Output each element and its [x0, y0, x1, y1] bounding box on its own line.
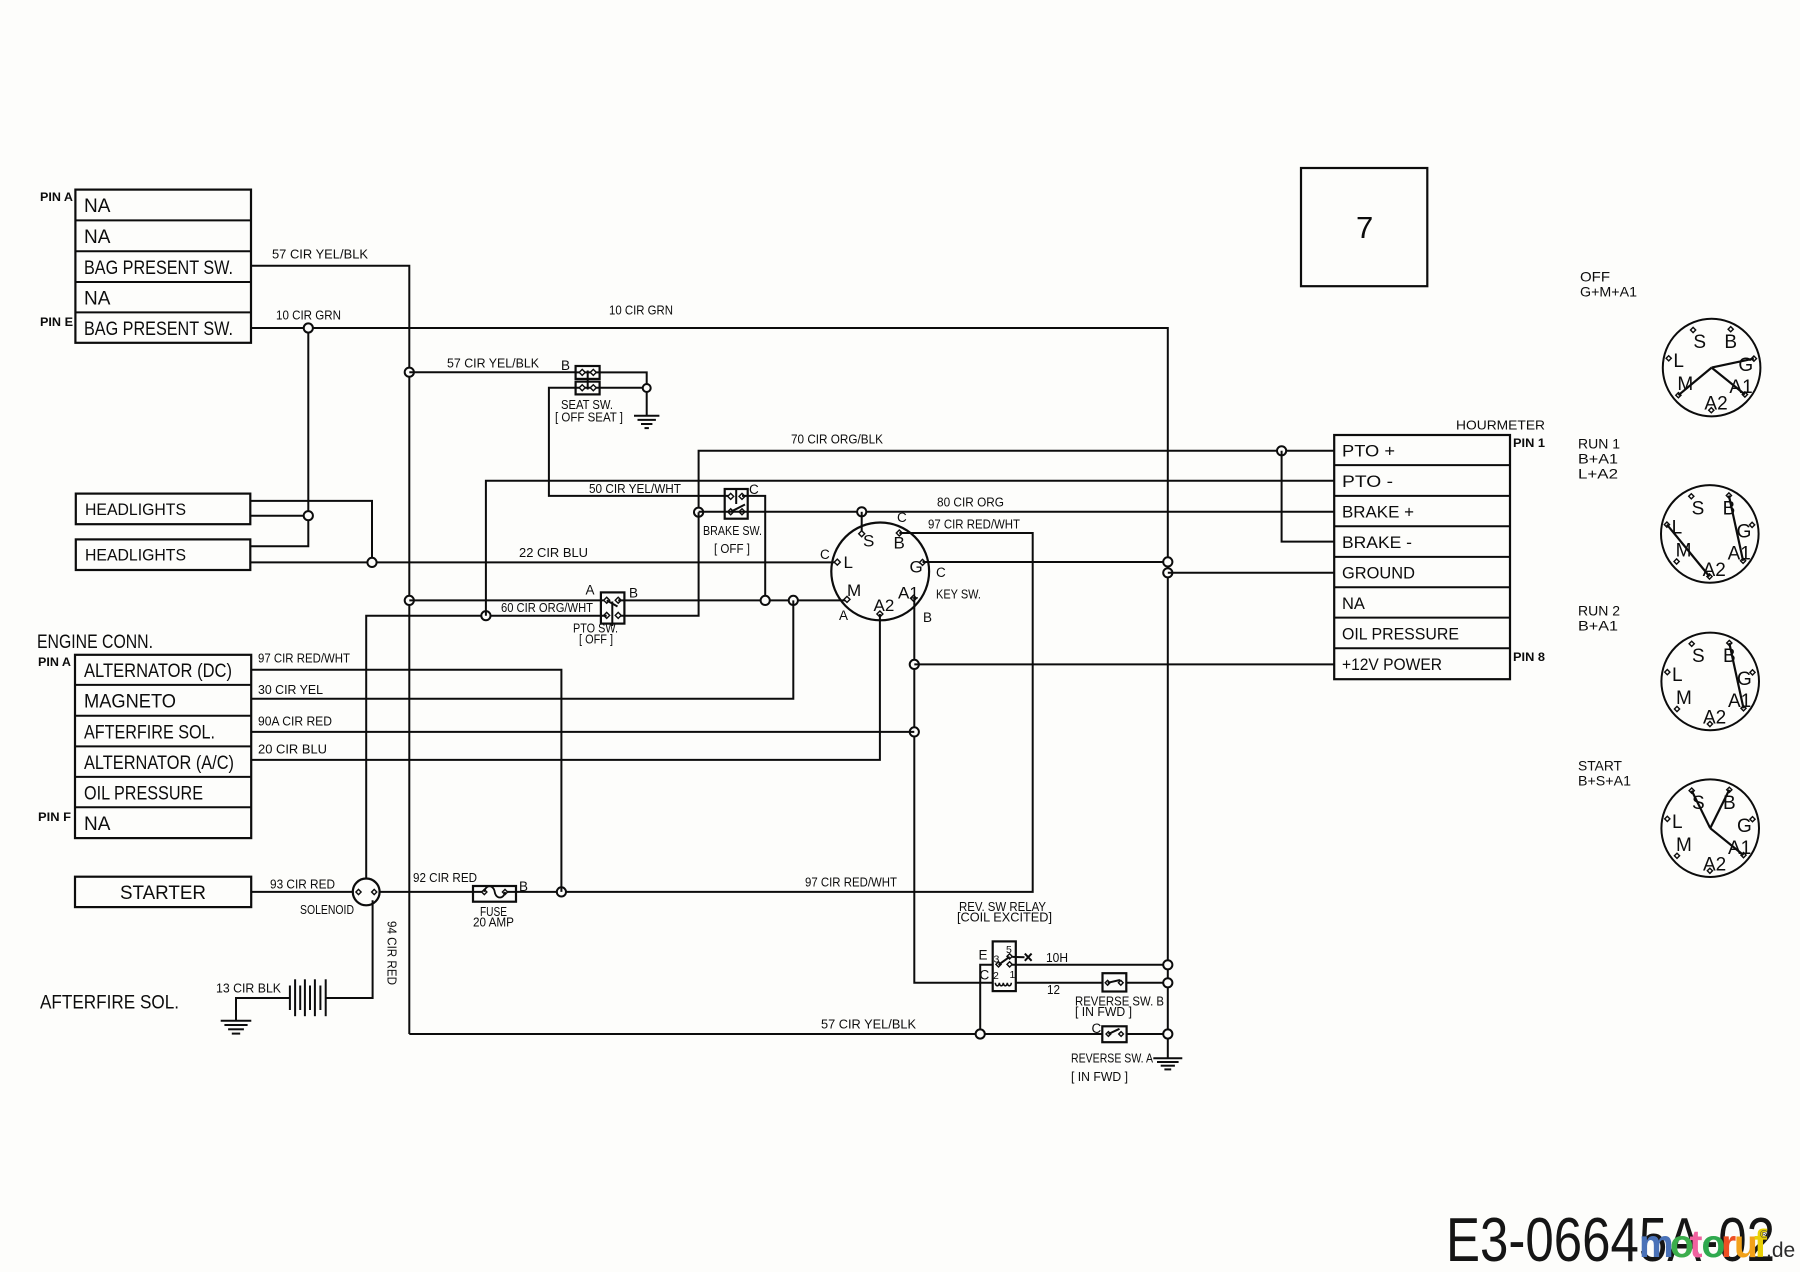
svg-text:C: C	[936, 565, 946, 580]
svg-text:57 CIR YEL/BLK: 57 CIR YEL/BLK	[821, 1017, 916, 1032]
seat switch SW2	[576, 366, 600, 394]
svg-text:A1: A1	[898, 584, 919, 603]
svg-text:70 CIR ORG/BLK: 70 CIR ORG/BLK	[791, 432, 883, 447]
ground (seat switch)	[634, 392, 659, 428]
key switch terminal B	[896, 530, 902, 536]
wire 60 CIR ORG/WHT solenoid to PTO sw	[366, 616, 607, 879]
reference box 7	[1301, 168, 1427, 286]
svg-text:M: M	[1677, 374, 1693, 395]
wire 94 CIR RED solenoid to battery	[326, 900, 373, 998]
svg-text:B: B	[519, 879, 528, 894]
junction brake C node	[694, 508, 703, 517]
svg-text:97 CIR RED/WHT: 97 CIR RED/WHT	[258, 650, 350, 665]
starter box	[75, 877, 251, 907]
wire A1 vertical to relay coil	[914, 598, 993, 983]
svg-text:10 CIR GRN: 10 CIR GRN	[609, 303, 673, 318]
svg-text:S: S	[1692, 793, 1705, 814]
headlights box 1	[76, 494, 251, 525]
wire 70 CIR ORG/BLK brake C to hourmeter PTO+	[699, 451, 1335, 512]
svg-text:B: B	[1724, 332, 1737, 353]
key switch terminal L	[834, 559, 840, 565]
wire 50 CIR YEL/WHT seat to brake sw	[549, 388, 731, 496]
svg-text:L+A2: L+A2	[1578, 466, 1618, 482]
svg-text:PIN E: PIN E	[40, 315, 73, 329]
svg-text:20 CIR BLU: 20 CIR BLU	[258, 742, 327, 757]
svg-text:BAG PRESENT SW.: BAG PRESENT SW.	[84, 319, 233, 340]
junction M net brake branch	[761, 596, 770, 605]
engine connector J2	[75, 655, 251, 838]
wire reverse sw B to bus	[1126, 982, 1168, 984]
svg-text:REVERSE SW. A: REVERSE SW. A	[1071, 1051, 1153, 1066]
wire 93 CIR RED starter to solenoid	[251, 891, 353, 893]
key switch terminal G	[920, 559, 926, 565]
svg-text:30 CIR YEL: 30 CIR YEL	[258, 682, 323, 697]
svg-text:B: B	[894, 534, 905, 553]
junction 60 CIR ORG/WHT	[481, 611, 490, 620]
svg-text:12: 12	[1047, 982, 1060, 997]
PTO switch SW1	[601, 592, 625, 626]
svg-text:C: C	[749, 482, 759, 497]
junction 22 CIR BLU	[367, 558, 376, 567]
svg-text:7: 7	[1356, 210, 1373, 245]
svg-text:.de: .de	[1766, 1239, 1795, 1262]
svg-text:+12V POWER: +12V POWER	[1342, 656, 1442, 674]
wire G terminal to ground bus	[923, 561, 1168, 563]
wire GROUND row to hourmeter	[1168, 572, 1334, 574]
svg-text:B+S+A1: B+S+A1	[1578, 773, 1631, 789]
svg-text:BAG PRESENT SW.: BAG PRESENT SW.	[84, 258, 233, 279]
svg-text:m: m	[1639, 1223, 1674, 1266]
svg-text:A2: A2	[874, 596, 895, 615]
svg-text:[ IN FWD ]: [ IN FWD ]	[1075, 1004, 1132, 1019]
svg-text:C: C	[1092, 1021, 1102, 1036]
svg-text:A: A	[586, 583, 595, 598]
junction 97 net at alternator DC feed	[557, 887, 566, 896]
wire 97 CIR RED/WHT alternator DC	[251, 670, 561, 892]
svg-text:5: 5	[1006, 944, 1012, 956]
svg-text:HEADLIGHTS: HEADLIGHTS	[85, 547, 186, 565]
junction relay E at 57 net	[976, 1029, 985, 1038]
watermark motoruf.de	[1639, 1223, 1795, 1266]
svg-text:G+M+A1: G+M+A1	[1580, 284, 1637, 300]
key switch terminal A1	[911, 595, 917, 601]
svg-text:L: L	[1673, 351, 1684, 372]
wire S terminal drop	[861, 512, 863, 534]
svg-text:STARTER: STARTER	[120, 883, 206, 904]
svg-text:PIN 1: PIN 1	[1513, 436, 1545, 450]
svg-text:10 CIR GRN: 10 CIR GRN	[276, 308, 341, 323]
svg-text:A1: A1	[1728, 691, 1751, 712]
svg-text:GROUND: GROUND	[1342, 565, 1415, 583]
junction 12 at bus	[1163, 978, 1172, 987]
svg-text:13 CIR BLK: 13 CIR BLK	[216, 981, 281, 996]
svg-text:NA: NA	[84, 196, 111, 217]
svg-text:NA: NA	[84, 288, 111, 309]
svg-text:3: 3	[994, 954, 1000, 966]
svg-text:2: 2	[993, 970, 999, 982]
key position diagram OFF	[1663, 319, 1761, 417]
svg-text:90A CIR RED: 90A CIR RED	[258, 713, 332, 728]
svg-text:OFF: OFF	[1580, 269, 1610, 285]
solenoid	[353, 879, 380, 906]
junction 57 net at PTO A branch	[405, 596, 414, 605]
wire solenoid to fuse 92 CIR RED	[380, 891, 485, 893]
svg-text:M: M	[1676, 688, 1692, 709]
wire seat switch to ground	[600, 372, 647, 384]
svg-text:22 CIR BLU: 22 CIR BLU	[519, 545, 588, 560]
svg-text:L: L	[1672, 812, 1683, 833]
svg-text:OIL PRESSURE: OIL PRESSURE	[84, 783, 203, 804]
wire 80 CIR ORG brake to hourmeter BRAKE+	[699, 511, 1335, 513]
junction G on bus	[1163, 557, 1172, 566]
key position diagram START	[1661, 779, 1759, 877]
node seat ground junction	[643, 384, 651, 392]
junction M net magneto branch	[789, 596, 798, 605]
svg-text:PIN A: PIN A	[40, 190, 73, 204]
svg-text:M: M	[847, 581, 861, 600]
wire hourmeter PTO- long feed	[486, 481, 1334, 616]
svg-text:A: A	[839, 608, 848, 623]
reverse switch A	[1102, 1026, 1126, 1042]
svg-text:KEY SW.: KEY SW.	[936, 587, 981, 602]
wire seat lower pin to ground node	[600, 387, 644, 389]
svg-text:S: S	[1692, 646, 1705, 667]
svg-text:B: B	[923, 610, 932, 625]
reverse switch B	[1103, 973, 1127, 991]
wire 10H relay to ground bus	[1012, 964, 1168, 966]
ground (battery)	[221, 1021, 252, 1034]
svg-text:NA: NA	[1342, 595, 1365, 613]
svg-text:60 CIR ORG/WHT: 60 CIR ORG/WHT	[501, 600, 593, 615]
svg-text:SOLENOID: SOLENOID	[300, 902, 354, 917]
svg-text:G: G	[910, 558, 923, 577]
svg-text:[ OFF ]: [ OFF ]	[579, 632, 613, 647]
svg-text:20 AMP: 20 AMP	[473, 914, 514, 929]
wire relay E to 57 net	[980, 965, 993, 1034]
wire headlight1 lower to junction	[250, 515, 308, 517]
svg-text:RUN 2: RUN 2	[1578, 603, 1620, 619]
svg-text:92 CIR RED: 92 CIR RED	[413, 870, 477, 885]
svg-text:A1: A1	[1728, 838, 1751, 859]
svg-text:ALTERNATOR (DC): ALTERNATOR (DC)	[84, 661, 232, 682]
svg-text:C: C	[897, 510, 907, 525]
svg-text:PTO +: PTO +	[1342, 443, 1395, 461]
svg-text:B: B	[561, 358, 570, 373]
key switch terminal S	[859, 531, 865, 537]
svg-text:ALTERNATOR (A/C): ALTERNATOR (A/C)	[84, 753, 234, 774]
key position diagram RUN 2	[1661, 633, 1759, 731]
junction PTO+ / BRAKE- branch	[1277, 446, 1286, 455]
svg-text:G: G	[1737, 816, 1752, 837]
svg-text:B: B	[1723, 793, 1736, 814]
svg-text:50 CIR YEL/WHT: 50 CIR YEL/WHT	[589, 481, 681, 496]
svg-text:97 CIR RED/WHT: 97 CIR RED/WHT	[805, 875, 897, 890]
wire 57 branch to seat switch	[409, 371, 575, 373]
svg-text:[COIL EXCITED]: [COIL EXCITED]	[957, 910, 1052, 925]
hourmeter connector	[1334, 435, 1510, 679]
wire BRAKE- feed	[1282, 451, 1335, 542]
wire A2 to 20 CIR BLU	[251, 614, 880, 760]
svg-text:A2: A2	[1703, 854, 1726, 875]
ground (reverse sw A)	[1153, 1039, 1182, 1069]
svg-text:G: G	[1737, 522, 1752, 543]
svg-text:C: C	[820, 547, 830, 562]
wire brake top pin down to M net	[742, 496, 765, 601]
svg-text:B+A1: B+A1	[1578, 618, 1618, 634]
wire 57 CIR YEL/BLK bottom run	[409, 1033, 1102, 1035]
junction bus bottom ground node	[1163, 1029, 1172, 1038]
key switch terminal M	[844, 596, 850, 602]
svg-text:A2: A2	[1703, 708, 1726, 729]
key switch terminal labels	[844, 532, 923, 616]
svg-text:HOURMETER: HOURMETER	[1456, 418, 1545, 433]
wire reverse sw A to ground node	[1127, 1033, 1168, 1035]
wire brake C vertical to PTO sw B	[618, 512, 698, 616]
svg-text:S: S	[1692, 499, 1705, 520]
wire headlight1 top to 22 CIR BLU junction	[250, 501, 372, 563]
svg-text:B+A1: B+A1	[1578, 451, 1618, 467]
svg-text:80 CIR ORG: 80 CIR ORG	[937, 495, 1004, 510]
svg-text:1: 1	[1010, 969, 1016, 981]
key position diagram RUN 1	[1661, 485, 1759, 583]
junction headlight node	[304, 511, 313, 520]
headlights box 2	[76, 539, 251, 570]
svg-text:93 CIR RED: 93 CIR RED	[270, 876, 335, 891]
wire 30 CIR YEL magneto to M net	[251, 600, 793, 698]
wire 97 CIR RED/WHT key B to fuse	[505, 533, 1033, 892]
svg-text:AFTERFIRE SOL.: AFTERFIRE SOL.	[40, 993, 179, 1014]
junction +12V feed	[910, 660, 919, 669]
svg-text:PIN F: PIN F	[38, 810, 71, 824]
svg-text:G: G	[1737, 669, 1752, 690]
wire M net PTO B to key switch M	[618, 599, 847, 601]
svg-text:S: S	[863, 532, 874, 551]
fuse F1 20 AMP	[473, 886, 516, 902]
svg-text:OIL PRESSURE: OIL PRESSURE	[1342, 626, 1459, 644]
svg-text:A1: A1	[1729, 377, 1752, 398]
wire 12 relay coil through reverse sw B	[1016, 982, 1103, 984]
svg-text:B: B	[1723, 646, 1736, 667]
connector J1 bag/pin block	[75, 190, 251, 343]
svg-text:START: START	[1578, 758, 1622, 774]
wire 13 CIR BLK battery to ground	[236, 998, 290, 1021]
svg-text:57 CIR YEL/BLK: 57 CIR YEL/BLK	[447, 356, 539, 371]
junction 90A CIR RED feed	[910, 727, 919, 736]
svg-text:A2: A2	[1704, 394, 1727, 415]
svg-text:M: M	[1676, 541, 1692, 562]
key switch terminal A2	[877, 611, 883, 617]
svg-text:L: L	[1672, 665, 1683, 686]
svg-text:94 CIR RED: 94 CIR RED	[385, 921, 400, 985]
wire +12V POWER to hourmeter	[914, 663, 1334, 665]
brake switch SW3	[725, 489, 748, 519]
svg-text:BRAKE SW.: BRAKE SW.	[703, 523, 762, 538]
svg-text:[ OFF SEAT ]: [ OFF SEAT ]	[555, 409, 623, 424]
svg-text:HEADLIGHTS: HEADLIGHTS	[85, 501, 186, 519]
svg-text:M: M	[1676, 835, 1692, 856]
wire 57 CIR YEL/BLK from bag present sw	[251, 266, 409, 1034]
svg-text:E: E	[979, 948, 988, 963]
wire 90A CIR RED afterfire sol	[251, 731, 914, 733]
svg-text:A1: A1	[1728, 544, 1751, 565]
svg-text:®: ®	[1760, 1229, 1768, 1241]
svg-text:RUN 1: RUN 1	[1578, 436, 1620, 452]
svg-text:PIN A: PIN A	[38, 655, 71, 669]
relay K1	[993, 941, 1032, 991]
svg-text:B: B	[1723, 499, 1736, 520]
svg-text:BRAKE +: BRAKE +	[1342, 504, 1414, 522]
svg-text:PTO -: PTO -	[1342, 473, 1393, 491]
svg-text:PIN 8: PIN 8	[1513, 650, 1545, 664]
junction 10H at bus	[1163, 960, 1172, 969]
svg-text:57 CIR YEL/BLK: 57 CIR YEL/BLK	[272, 247, 368, 262]
svg-text:[ OFF ]: [ OFF ]	[714, 541, 750, 556]
svg-text:ENGINE CONN.: ENGINE CONN.	[37, 632, 153, 653]
svg-text:MAGNETO: MAGNETO	[84, 692, 176, 713]
svg-text:[ IN FWD ]: [ IN FWD ]	[1071, 1069, 1128, 1084]
svg-text:97 CIR RED/WHT: 97 CIR RED/WHT	[928, 517, 1020, 532]
svg-text:L: L	[844, 553, 853, 572]
svg-text:10H: 10H	[1046, 950, 1068, 965]
svg-text:B: B	[629, 586, 638, 601]
junction GROUND row feed	[1163, 568, 1172, 577]
wire 22 CIR BLU headlight2 to key switch L	[250, 561, 837, 563]
svg-text:G: G	[1738, 355, 1753, 376]
svg-text:AFTERFIRE SOL.: AFTERFIRE SOL.	[84, 722, 215, 743]
svg-text:NA: NA	[84, 227, 111, 248]
svg-text:BRAKE -: BRAKE -	[1342, 534, 1412, 552]
svg-text:NA: NA	[84, 814, 111, 835]
wire branch to headlights from 10 CIR GRN	[250, 328, 308, 546]
wire 57 branch to PTO sw A	[409, 599, 606, 601]
wire 10 CIR GRN from bag present sw pin E	[251, 328, 1168, 1034]
svg-text:S: S	[1693, 332, 1706, 353]
svg-text:L: L	[1672, 518, 1683, 539]
battery BT1	[290, 979, 326, 1016]
svg-text:A2: A2	[1703, 560, 1726, 581]
junction 57 net at seat branch	[405, 368, 414, 377]
junction S branch on 80 CIR ORG	[857, 507, 866, 516]
junction on 10 CIR GRN	[304, 323, 313, 332]
key switch SW4 body	[831, 523, 929, 621]
